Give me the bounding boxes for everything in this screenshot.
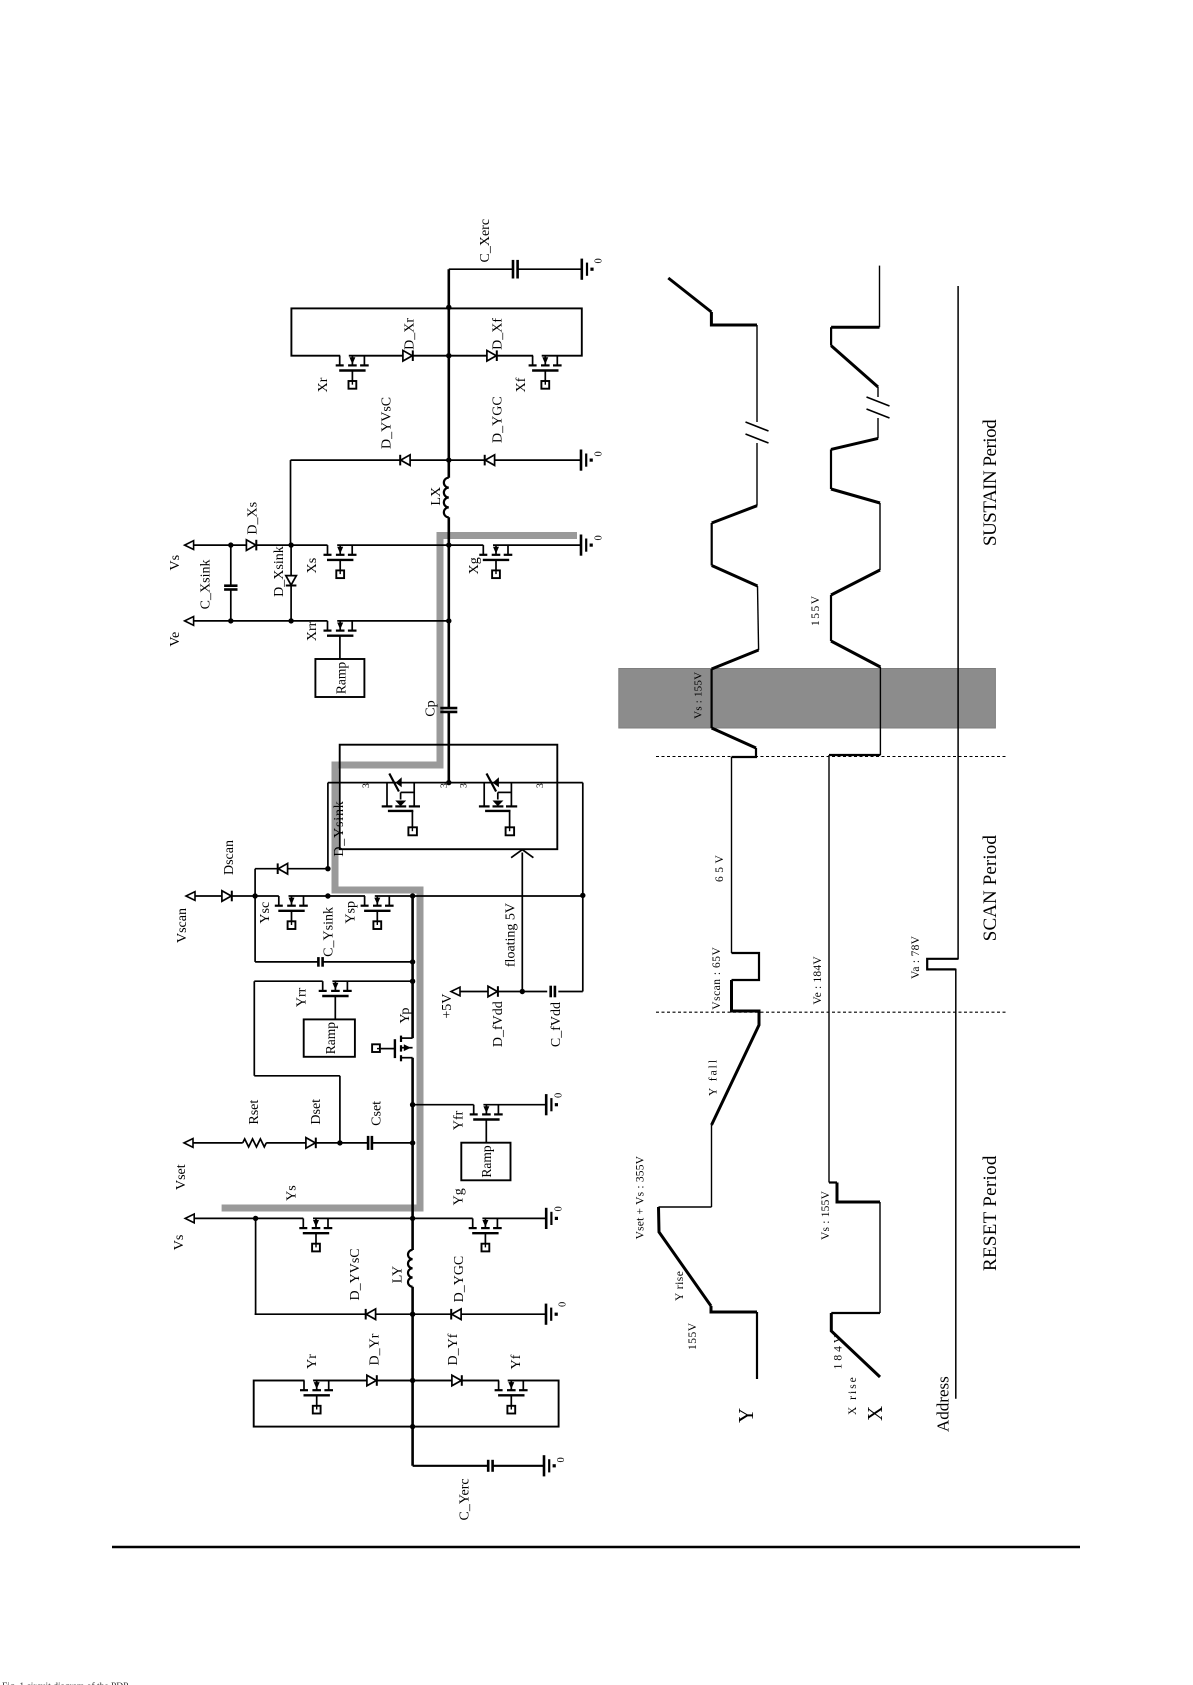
svg-text:SUSTAIN Period: SUSTAIN Period [980, 419, 1001, 546]
Ramp generator box (Yfr) [461, 1143, 510, 1181]
wire: Vset row [193, 1142, 413, 1144]
svg-text:Xg: Xg [467, 557, 482, 574]
svg-text:Yp: Yp [398, 1008, 413, 1024]
svg-text:Dscan: Dscan [222, 840, 237, 875]
ground 0 (Xg) [581, 535, 605, 556]
svg-text:Y fall: Y fall [708, 1058, 720, 1096]
transistor Xf [514, 354, 561, 393]
svg-text:Xrr: Xrr [305, 621, 320, 641]
wire: fVdd loop (scan rail to C_fVdd) [460, 783, 583, 992]
wire: Dscan to Vscan rail [254, 869, 256, 897]
svg-text:Vset + Vs : 355V: Vset + Vs : 355V [634, 1155, 646, 1239]
svg-text:3: 3 [536, 783, 546, 788]
node: scan rail / Y bus [410, 893, 415, 898]
node: Cset / Y bus [410, 1140, 415, 1145]
svg-text:0: 0 [558, 1302, 569, 1307]
label SCAN Period [980, 835, 1001, 942]
wire: scan IC internal rail [328, 782, 583, 784]
wire: Vscan to C_Ysink link [254, 896, 256, 962]
svg-text:D_Xf: D_Xf [491, 318, 506, 350]
diode Dscan [222, 840, 288, 875]
wire: C_Xsink link [230, 545, 232, 621]
svg-text:SCAN Period: SCAN Period [980, 835, 1001, 942]
wire: Yrr gate to Ramp [334, 996, 336, 1019]
svg-text:0: 0 [556, 1457, 567, 1462]
wire: Ysc/Ysp scan output rail [195, 895, 583, 897]
resistor Rset [243, 1100, 267, 1147]
svg-text:0: 0 [594, 535, 605, 540]
svg-text:D_YVsC: D_YVsC [379, 397, 394, 449]
transistor Yg [451, 1188, 501, 1251]
svg-text:Yfr: Yfr [451, 1110, 466, 1130]
svg-text:C_Yerc: C_Yerc [458, 1478, 473, 1520]
diode Dset [306, 1099, 324, 1148]
svg-text:Y: Y [734, 1408, 758, 1423]
break marks on Y waveform [744, 422, 770, 443]
ground 0 (X diode row) [581, 450, 605, 471]
terminal +5V [440, 987, 460, 1019]
transistor Yr [300, 1354, 333, 1414]
terminal Vs (Y side) [172, 1214, 194, 1250]
node: Yfr branch / Y bus [410, 1102, 415, 1107]
terminal Vset [174, 1139, 193, 1191]
svg-text:0: 0 [554, 1093, 565, 1098]
diode D_Yf [446, 1333, 462, 1386]
svg-text:D_YGC: D_YGC [491, 396, 506, 443]
diode D_Yr [367, 1333, 383, 1386]
wire: scan rail stub to Dscan node [327, 783, 329, 869]
wire: C_Xerc branch from X bus node to ground [449, 268, 582, 270]
scan IC high-side FET with zener (D_Ysink pair) [382, 774, 420, 836]
transistor Yp (series pass) [372, 1008, 413, 1062]
node: Dscan / scan stub [325, 866, 330, 871]
node: Xs rail / X bus [446, 542, 451, 547]
diode D_YVsC (Y side) [348, 1248, 376, 1319]
svg-text:Vs : 155V: Vs : 155V [820, 1190, 832, 1240]
label Vset + Vs : 355V [634, 1155, 646, 1239]
wire: C_Yerc branch [413, 1465, 544, 1467]
wire: X clamp diode row [291, 459, 582, 461]
svg-text:155V: 155V [687, 1322, 699, 1350]
svg-text:0: 0 [554, 1206, 565, 1211]
label 155V (Y reset base) [687, 1322, 699, 1350]
svg-text:Vs : 155V: Vs : 155V [693, 672, 705, 719]
node: Y bus / Yr box component edge [410, 1378, 415, 1383]
transistor Yfr [451, 1103, 502, 1130]
svg-text:D_Xr: D_Xr [403, 318, 418, 350]
pin 3 labels [362, 783, 546, 788]
footnote rule [112, 1546, 1080, 1549]
svg-text:Ramp: Ramp [479, 1145, 494, 1177]
waveform Address [927, 286, 958, 1399]
node: X bus / box component edge [446, 353, 451, 358]
svg-text:D_YGC: D_YGC [452, 1256, 467, 1303]
svg-text:184V: 184V [832, 1332, 844, 1370]
svg-text:0: 0 [594, 451, 605, 456]
transistor Yf [495, 1354, 528, 1413]
capacitor C_Yerc [458, 1460, 493, 1521]
ground 0 (C_Yerc) [544, 1455, 567, 1476]
svg-text:Yr: Yr [305, 1354, 320, 1369]
label 155V (Y sustain) [810, 594, 822, 626]
break marks on X waveform [865, 397, 891, 418]
svg-text:D_Ysink: D_Ysink [332, 800, 347, 856]
label Ve : 184V [812, 956, 824, 1005]
svg-text:Yf: Yf [509, 1354, 524, 1369]
label Vscan : 65V [711, 947, 723, 1010]
svg-text:LX: LX [429, 487, 444, 506]
wire: D_Xsink link [290, 545, 292, 621]
wire: X diode row to Xs rail branch [290, 460, 292, 544]
capacitor C_Xsink [199, 560, 238, 610]
gray band Vs 155V (first sustain pulse) [619, 669, 996, 729]
svg-text:Vscan: Vscan [175, 908, 190, 943]
svg-text:D_Xs: D_Xs [245, 502, 260, 535]
svg-text:C_Xsink: C_Xsink [199, 560, 214, 610]
svg-text:Ve: Ve [168, 632, 183, 647]
svg-text:Yrr: Yrr [294, 987, 309, 1007]
Y energy-recovery box [254, 1381, 559, 1427]
footnote caption (clipped at page bottom) [2, 1681, 128, 1685]
transistor Ys [285, 1185, 333, 1251]
wire: main X electrode bus [447, 269, 450, 782]
svg-text:Vs: Vs [172, 1235, 187, 1251]
label D_Ysink [332, 800, 347, 856]
diode D_Xs [245, 502, 260, 550]
wire: C_Ysink rail [255, 961, 413, 963]
label RESET Period [980, 1155, 1001, 1271]
inductor LY [391, 1250, 413, 1287]
svg-text:floating 5V: floating 5V [504, 903, 519, 967]
svg-text:Vs: Vs [168, 555, 183, 571]
svg-text:X rise: X rise [847, 1375, 859, 1415]
svg-text:Xr: Xr [316, 377, 331, 392]
transistor Xg [467, 543, 512, 578]
node: C_Ysink / Y bus [410, 959, 415, 964]
wire: Dscan branch [255, 868, 328, 870]
svg-text:Vset: Vset [174, 1164, 189, 1190]
terminal Ve [168, 617, 194, 647]
dashed separator SCAN/SUSTAIN [656, 756, 1008, 758]
transistor Ysp [344, 894, 394, 929]
svg-text:D_Yf: D_Yf [446, 1333, 461, 1365]
svg-text:Cset: Cset [370, 1101, 385, 1126]
diode D_YGC (X side) [485, 396, 506, 465]
node: Yrr rail / Y bus [410, 979, 415, 984]
inductor LX [429, 478, 449, 518]
diode D_YGC (Y side) [451, 1256, 467, 1320]
svg-text:LY: LY [391, 1266, 406, 1283]
wire: Yfr branch [413, 1104, 547, 1106]
ground 0 (Yg) [546, 1206, 564, 1229]
node: floating 5V stem [520, 989, 525, 994]
label Address axis [934, 1376, 953, 1432]
node: X bus / box top edge [446, 305, 451, 310]
transistor Xr [316, 354, 369, 393]
node: Ve rail / X bus [446, 618, 451, 623]
transistor Ysc [258, 894, 308, 929]
transistor Xrr [305, 619, 357, 641]
svg-text:D_fVdd: D_fVdd [491, 1001, 506, 1047]
wire: Ys rail [194, 1217, 546, 1219]
diode D_Xsink [272, 546, 297, 597]
address pulse emphasis Va [927, 959, 958, 970]
label 184V [832, 1332, 844, 1370]
terminal Vscan [175, 892, 195, 943]
wire: Y left branch [255, 1218, 257, 1314]
svg-text:Address: Address [934, 1376, 953, 1432]
svg-text:0: 0 [594, 258, 605, 263]
svg-text:Va : 78V: Va : 78V [910, 935, 922, 979]
gray highlighted current path (Ys-Cp-Xg loop) [222, 536, 577, 1209]
svg-text:Cp: Cp [424, 700, 439, 716]
ground 0 (Y diode row) [546, 1302, 569, 1325]
svg-text:Ramp: Ramp [333, 662, 348, 694]
svg-text:Fig. 1 circuit diagram of the: Fig. 1 circuit diagram of the PDP [2, 1681, 128, 1685]
svg-text:RESET Period: RESET Period [980, 1155, 1001, 1271]
node: Dset / Yrr routing [337, 1140, 342, 1145]
svg-text:3: 3 [460, 783, 470, 788]
Ramp generator box (Yrr) [304, 1019, 355, 1056]
node: Ve rail / C_Xsink [228, 618, 233, 623]
diode D_Xf [487, 318, 506, 361]
transistor Yrr [294, 979, 351, 1007]
wire: Y electrode bus [411, 896, 414, 1466]
svg-text:Y rise: Y rise [674, 1271, 686, 1301]
node: Ys rail / left branch [253, 1216, 258, 1221]
svg-text:3: 3 [440, 783, 450, 788]
svg-text:D_Yr: D_Yr [368, 1333, 383, 1365]
label X axis [863, 1406, 887, 1421]
wire: Yfr gate to Ramp [485, 1120, 487, 1143]
dashed separator RESET/SCAN [656, 1011, 1008, 1013]
diode D_fVdd [488, 986, 506, 1047]
scan IC low-side FET with zener [479, 774, 517, 836]
svg-text:Ysc: Ysc [258, 902, 273, 924]
svg-text:+5V: +5V [440, 994, 455, 1019]
label Vs : 155V (X reset) [820, 1190, 832, 1240]
transistor Xs [305, 543, 357, 578]
node: Vscan rail / Dscan branch [252, 893, 257, 898]
node: Ys rail / Y bus [410, 1216, 415, 1221]
label SUSTAIN Period [980, 419, 1001, 546]
capacitor C_fVdd [549, 986, 564, 1047]
node: Xs rail / C_Xsink [228, 542, 233, 547]
capacitor Cp (panel) [424, 700, 458, 716]
svg-text:Dset: Dset [309, 1099, 324, 1125]
diode D_Xr [403, 318, 418, 361]
terminal Vs (X side) [168, 541, 194, 571]
wire: Y clamp diode row [255, 1313, 546, 1315]
wire: Yrr rail and routing to Dset [254, 981, 412, 1142]
label X rise [847, 1375, 859, 1415]
svg-text:D_Xsink: D_Xsink [272, 546, 287, 597]
svg-text:C_Ysink: C_Ysink [322, 907, 337, 957]
waveform X [829, 266, 880, 1377]
label Y axis [734, 1408, 758, 1423]
node: scan rail / fVdd loop [580, 893, 585, 898]
svg-text:Ve : 184V: Ve : 184V [812, 956, 824, 1005]
node: Xs rail / D_Xsink [288, 542, 293, 547]
svg-text:Xs: Xs [305, 558, 320, 574]
X energy-recovery box [291, 308, 581, 355]
capacitor Cset [368, 1101, 384, 1150]
svg-text:3: 3 [362, 783, 372, 788]
capacitor C_Xerc [478, 219, 518, 279]
scan driver IC box [340, 745, 558, 850]
wire: Xrr gate to Ramp box [339, 636, 341, 659]
svg-text:Rset: Rset [247, 1100, 262, 1125]
svg-text:Vscan : 65V: Vscan : 65V [711, 947, 723, 1010]
label Y rise [674, 1271, 686, 1301]
node: Y bus / Yr box far edge [410, 1424, 415, 1429]
node: Y diode row / Y bus [410, 1312, 415, 1317]
label Y fall [708, 1058, 720, 1096]
svg-text:155V: 155V [810, 594, 822, 626]
wire: Xs rail (Vs to ground) [194, 544, 581, 546]
node: Ve rail / D_Xsink [288, 618, 293, 623]
node: scan rail / Dscan vertical [325, 893, 330, 898]
wire: Ve rail [194, 620, 449, 622]
label 65V [714, 852, 726, 882]
svg-text:65V: 65V [714, 852, 726, 882]
label Vs : 155V in band [693, 672, 705, 719]
node: scan rail / Cp bus [446, 780, 451, 785]
label Va : 78V [910, 935, 922, 979]
ground 0 (C_Xerc) [582, 258, 605, 280]
svg-text:Ramp: Ramp [323, 1022, 338, 1054]
wire: floating 5V supply arrow into scan IC [504, 850, 534, 992]
svg-text:Ysp: Ysp [344, 901, 359, 924]
ground 0 (Yfr) [546, 1093, 564, 1116]
waveform Y [659, 278, 760, 1379]
node: X bus / diode row [446, 457, 451, 462]
svg-text:X: X [863, 1406, 887, 1421]
svg-text:Yg: Yg [451, 1188, 466, 1205]
svg-text:C_fVdd: C_fVdd [549, 1002, 564, 1047]
svg-text:Ys: Ys [285, 1185, 300, 1201]
svg-text:D_YVsC: D_YVsC [348, 1248, 363, 1300]
svg-text:C_Xerc: C_Xerc [478, 219, 493, 263]
svg-text:Xf: Xf [514, 377, 529, 392]
Ramp generator box (Xrr) [315, 659, 364, 697]
capacitor C_Ysink [318, 907, 336, 967]
diode D_YVsC (X side) [379, 397, 410, 466]
diode at Vscan input [222, 891, 232, 902]
